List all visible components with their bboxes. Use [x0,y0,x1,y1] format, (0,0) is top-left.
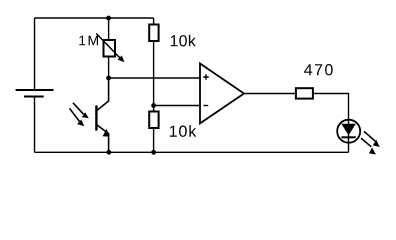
junction dot node B [151,103,156,108]
wire left vertical (battery top lead) [34,18,36,90]
resistor 470 [296,88,313,98]
battery [16,90,54,97]
label 10k bottom [170,125,196,137]
wire op-amp output [244,93,295,95]
potentiometer 1M [96,34,124,63]
light arrow into phototransistor lower [70,108,85,126]
junction dot top rail / 1M [106,16,111,21]
wire top rail [35,17,154,19]
wire 10k bottom top lead [153,106,155,112]
label 470 [304,64,333,75]
label 1M [79,36,98,46]
wire 10k top lead [153,18,155,25]
wire 470 to LED [313,94,349,153]
resistor 10k bottom [149,112,158,129]
light arrow into phototransistor upper [73,103,89,119]
junction dot node A [106,76,111,81]
wire node A to op-amp plus input [109,77,200,79]
light arrow out of LED upper [364,131,380,147]
junction dot 10k bottom on bottom rail [151,150,156,155]
phototransistor [96,78,109,152]
label 10k top [171,35,196,47]
resistor 10k top [149,25,158,42]
wire 1M bottom lead [108,58,110,79]
LED D1 [337,120,360,143]
junction dot emitter on bottom rail [107,150,112,155]
wire 1M top lead [108,18,110,39]
wire 10k bottom to rail [153,128,155,152]
light arrow out of LED lower [361,138,376,154]
op-amp U1 [200,64,244,124]
wire left vertical (battery bottom lead) [34,97,36,153]
wire node B to op-amp minus input [154,105,200,107]
wire bottom rail [35,151,349,153]
wire 10k top to node B [153,41,155,106]
